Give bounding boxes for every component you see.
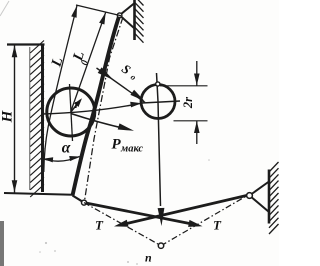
bottom node circle [158,243,163,248]
right wall line [268,170,271,224]
svg-text:2r: 2r [181,97,195,109]
dimension line S0 [97,68,146,103]
dash-dot V left [84,203,161,246]
svg-text:п: п [145,251,152,265]
left truss pivot dot [82,200,87,205]
radius arrow r [71,100,81,112]
svg-text:P: P [112,137,122,153]
2r bottom extension line [174,120,208,122]
small dot on top of circle [156,82,160,86]
lever bar [73,15,120,196]
svg-text:α: α [62,140,71,157]
small circle horizontal crosshair [142,101,180,103]
left wall top line [7,43,45,45]
scan faint mark top left [0,1,9,16]
big circle vertical crosshair [70,84,73,141]
right pivot dot [247,193,253,199]
top wall [133,0,136,40]
top pivot dot [117,13,122,18]
big roller circle [47,88,95,136]
force arrow P [71,114,126,129]
svg-text:T: T [95,218,104,233]
dimension line L0 [71,12,106,111]
scan smudge left edge [0,221,4,266]
svg-text:T: T [213,218,222,233]
top pivot bracket [120,4,134,16]
right pivot bracket [250,182,270,196]
svg-text:H: H [0,109,16,123]
2r dimension line [196,61,198,86]
extension line at top [76,5,121,16]
dimension line L [44,6,77,173]
small circle vertical line down to truss [157,73,161,206]
angle arc alpha [43,157,80,162]
truss diagonal B (right pivot to left T arrow) [122,195,248,224]
small roller circle [141,85,175,119]
svg-text:макс: макс [120,144,143,155]
dimension line H [14,45,16,193]
left wall inner edge [29,47,31,190]
scan noise specks [39,159,210,265]
2r top extension line [160,85,208,87]
left wall hatching [30,41,44,198]
center-to-center line [43,103,142,114]
left wall face line [41,44,44,192]
dash-dot V right [161,195,248,245]
ground line bottom [4,193,73,195]
truss diagonal A (left pivot to right T arrow) [84,203,194,225]
link from lever bottom to left truss pivot [73,196,85,203]
lever axis dash-dot [85,17,124,201]
